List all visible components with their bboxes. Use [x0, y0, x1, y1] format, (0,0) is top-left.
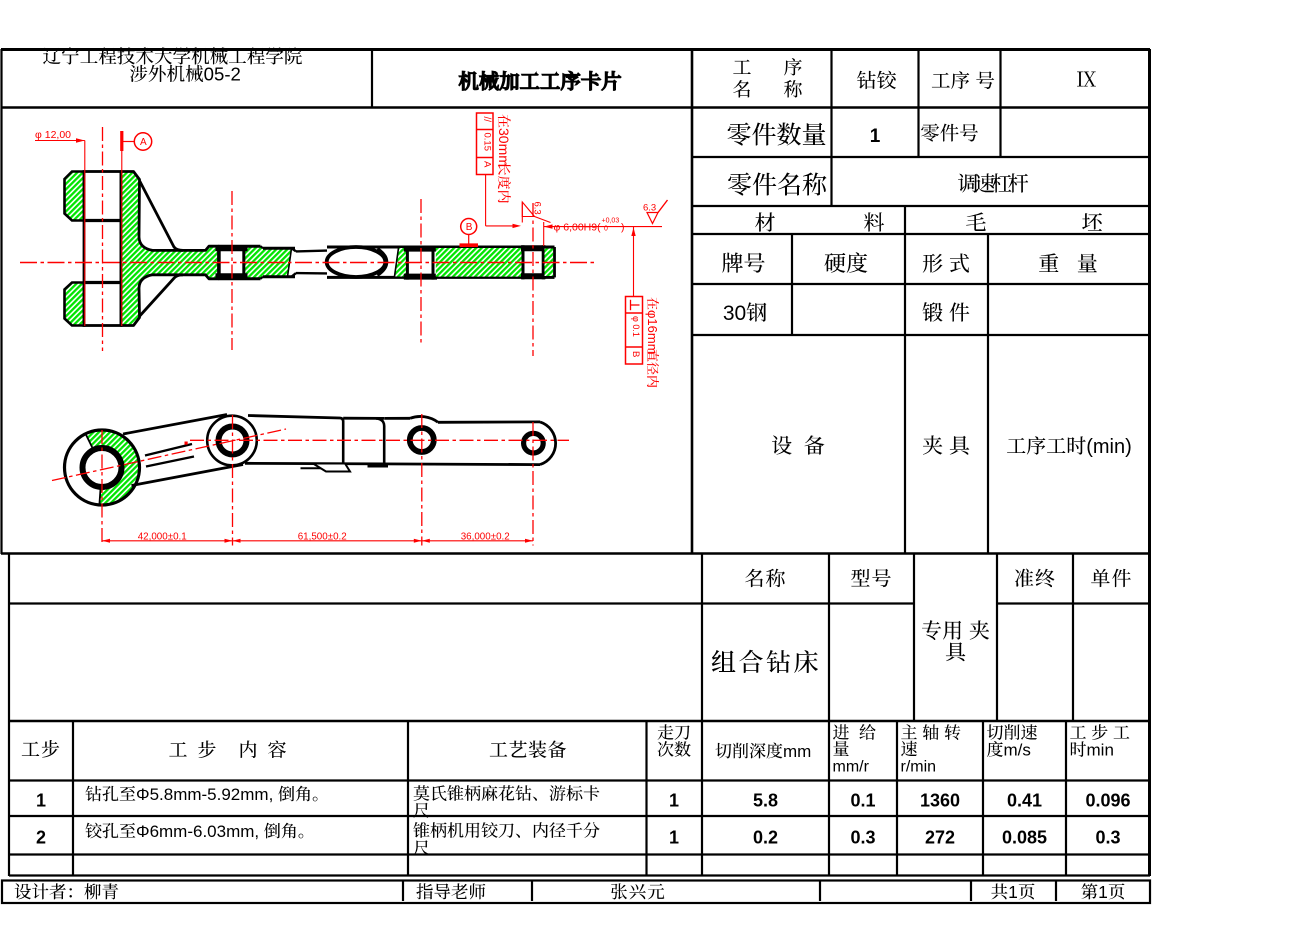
- parallelism tolerance frame: [477, 113, 494, 175]
- svg-text:6.3: 6.3: [643, 203, 656, 214]
- slot detail below bar: [301, 467, 324, 469]
- svg-text:min: min: [1087, 741, 1114, 760]
- right end bore thick circle: [524, 433, 544, 453]
- arm outline upper: [123, 415, 227, 435]
- pin hole 1 (white) with thick bands: [219, 251, 244, 273]
- svg-text:0.1: 0.1: [850, 791, 875, 811]
- right end cap arc: [540, 422, 556, 465]
- svg-text:r/min: r/min: [901, 759, 937, 776]
- svg-text:30mm: 30mm: [496, 128, 512, 167]
- svg-text:42,000±0.1: 42,000±0.1: [138, 532, 187, 543]
- red vertical centerlines bottom view: [101, 430, 103, 546]
- svg-text:0.2: 0.2: [753, 828, 778, 848]
- svg-text:0: 0: [604, 226, 608, 233]
- shaft segment hatched: hole1 right to break: [245, 246, 292, 279]
- svg-text:0.3: 0.3: [850, 828, 875, 848]
- svg-text:0.085: 0.085: [1002, 828, 1047, 848]
- boss outline at pin hole 1: [219, 245, 261, 248]
- shaft neck white section: [292, 248, 297, 251]
- parallelism leader: [485, 175, 487, 226]
- svg-text:0.15: 0.15: [482, 133, 493, 152]
- svg-text:1: 1: [36, 791, 46, 811]
- svg-text:φ 0.1: φ 0.1: [631, 316, 641, 337]
- svg-text:1360: 1360: [920, 791, 960, 811]
- svg-text:05-2: 05-2: [204, 64, 241, 85]
- phi12 dimension extension lines: [84, 141, 86, 327]
- svg-text:Φ6mm-6.03mm,: Φ6mm-6.03mm,: [136, 822, 259, 841]
- phi6 H9 dimension: [543, 222, 545, 246]
- red arm axis diagonal: [52, 429, 286, 481]
- big boss outer circle: [65, 430, 140, 505]
- svg-text:φ 6,00H9(: φ 6,00H9(: [554, 221, 602, 233]
- svg-text:5.8: 5.8: [753, 791, 778, 811]
- svg-text:272: 272: [925, 828, 955, 848]
- pin hole 1 centerline: [231, 191, 233, 350]
- svg-text:+0,03: +0,03: [602, 218, 620, 225]
- svg-text:0.41: 0.41: [1007, 791, 1042, 811]
- break line curve: [288, 248, 292, 276]
- hatched sliver at shaft end: [545, 249, 554, 277]
- bar top edge: [248, 416, 343, 422]
- boss2 outer circle: [207, 416, 257, 466]
- svg-text:mm: mm: [783, 742, 811, 761]
- boss3 top bulge arc: [410, 416, 438, 422]
- svg-text:0.096: 0.096: [1085, 791, 1130, 811]
- datum B flag: [461, 219, 477, 235]
- svg-text:B: B: [630, 351, 641, 357]
- top edge right of boss3: [438, 420, 540, 423]
- big boss bore thick circle: [83, 448, 122, 487]
- boss2 bore thick circle: [219, 427, 247, 455]
- svg-text:2: 2: [36, 828, 46, 848]
- drilled hole phi6 (white) thick bands: [525, 251, 542, 273]
- centerline shaft axis: [20, 262, 597, 264]
- perpendicularity symbol (drawn): [630, 300, 632, 310]
- table grid: [1, 48, 1150, 51]
- head fork left flange bottom block: [65, 283, 85, 326]
- svg-text:φ 12,00: φ 12,00: [35, 129, 71, 141]
- svg-text:A: A: [482, 161, 493, 168]
- hatched piece left of pin hole 2: [395, 248, 408, 277]
- big boss hatched annulus sector: [85, 430, 139, 506]
- svg-text:30: 30: [723, 302, 746, 325]
- svg-text:1: 1: [669, 791, 679, 811]
- svg-text:φ16mm: φ16mm: [645, 310, 660, 355]
- svg-text://: //: [481, 117, 492, 123]
- svg-text:1: 1: [870, 126, 881, 147]
- pin hole 2 (white) with thick bands: [407, 252, 433, 274]
- svg-text:mm/r: mm/r: [833, 759, 870, 776]
- bar bottom edge: [245, 463, 540, 464]
- hatched segment hole2-hole3: [436, 248, 523, 277]
- shaft outline segment to neck: [263, 247, 295, 250]
- svg-text:): ): [621, 221, 625, 233]
- pin hole 2 centerline: [420, 199, 422, 343]
- svg-text:36,000±0.2: 36,000±0.2: [461, 532, 510, 543]
- perpendicularity leader: [633, 227, 635, 297]
- obround slot (white): [327, 247, 386, 277]
- phi12 dimension line + arrow: [35, 140, 85, 142]
- drilled hole centerline: [532, 203, 534, 356]
- red dot marker: [185, 442, 188, 445]
- arm inner slot lines: [145, 444, 192, 456]
- svg-text:61,500±0.2: 61,500±0.2: [298, 532, 347, 543]
- svg-text:Φ5.8mm-5.92mm,: Φ5.8mm-5.92mm,: [136, 785, 273, 804]
- svg-text:6.3: 6.3: [532, 202, 543, 215]
- svg-text:0.3: 0.3: [1095, 828, 1120, 848]
- svg-text:1: 1: [1098, 882, 1108, 902]
- svg-text:A: A: [140, 137, 147, 148]
- svg-text:1: 1: [669, 828, 679, 848]
- dimension line: [102, 540, 533, 542]
- red horizontal axis of bar: [190, 439, 569, 441]
- svg-text:m/s: m/s: [1004, 741, 1031, 760]
- head vertical centerline: [102, 127, 104, 351]
- roughness symbol at hole: [521, 202, 523, 223]
- head bore white column: [84, 172, 121, 326]
- svg-text:B: B: [466, 222, 473, 233]
- arm outline lower: [132, 465, 244, 486]
- head web silhouette diagonals: [140, 181, 183, 250]
- head fork left flange top block: [65, 172, 85, 221]
- datum A flag: [120, 131, 123, 151]
- shaft top/bottom outline right part: [327, 246, 555, 249]
- head right column + web (hatched): [121, 172, 219, 326]
- table text: [43, 48, 60, 65]
- svg-text:(min): (min): [1086, 436, 1132, 458]
- svg-text:1: 1: [1008, 882, 1018, 902]
- boss3 bore thick circle: [410, 428, 434, 452]
- perpendicularity tolerance frame: [626, 297, 643, 365]
